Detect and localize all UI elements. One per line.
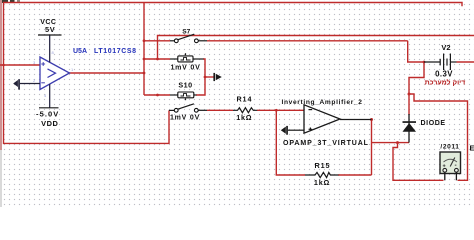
svg-text:1mV 0V: 1mV 0V — [170, 64, 200, 71]
svg-text:2: 2 — [33, 78, 36, 83]
svg-text:1kΩ: 1kΩ — [236, 113, 252, 122]
svg-text:דיוק למערכת: דיוק למערכת — [425, 78, 466, 86]
svg-text:DIODE: DIODE — [421, 120, 446, 127]
svg-text:Inverting_Amplifier_2: Inverting_Amplifier_2 — [282, 99, 363, 106]
svg-text:S10: S10 — [178, 80, 192, 89]
svg-text:8: 8 — [52, 50, 55, 55]
svg-text:0.3V: 0.3V — [435, 69, 453, 78]
svg-text:U5A: U5A — [73, 48, 87, 55]
svg-text:-5.0V: -5.0V — [36, 109, 59, 118]
svg-text:4: 4 — [44, 93, 47, 98]
svg-text:OPAMP_3T_VIRTUAL: OPAMP_3T_VIRTUAL — [283, 140, 369, 147]
svg-text:E: E — [470, 144, 474, 153]
svg-text:VDD: VDD — [41, 119, 58, 128]
svg-text:1kΩ: 1kΩ — [314, 178, 330, 187]
svg-text:/2011: /2011 — [440, 143, 459, 150]
svg-text:3: 3 — [33, 60, 36, 65]
svg-text:5V: 5V — [45, 25, 55, 34]
svg-text:R14: R14 — [236, 95, 252, 104]
svg-text:R15: R15 — [315, 161, 331, 170]
svg-text:LT1017CS8: LT1017CS8 — [94, 48, 137, 55]
svg-text:1mV 0V: 1mV 0V — [170, 115, 200, 122]
svg-text:1: 1 — [71, 67, 74, 72]
svg-text:S7: S7 — [182, 29, 190, 36]
svg-text:V2: V2 — [441, 43, 450, 52]
